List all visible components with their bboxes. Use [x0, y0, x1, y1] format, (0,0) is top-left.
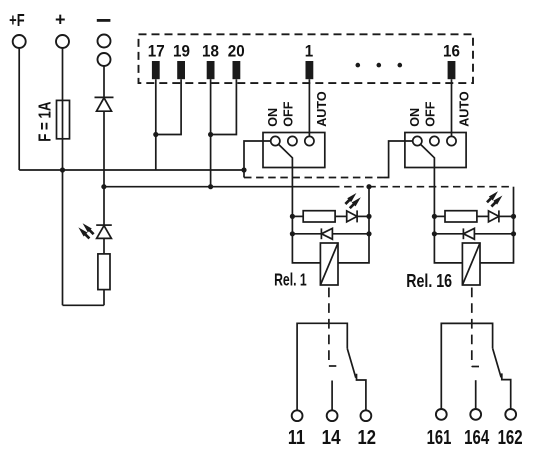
svg-text:12: 12 [358, 425, 377, 448]
rel16 wire resistor-LED [477, 215, 489, 217]
terminal 161 [436, 409, 447, 420]
wire pin17 down [155, 79, 157, 170]
svg-text:17: 17 [148, 43, 165, 61]
svg-text:20: 20 [228, 43, 245, 61]
wire +F down [18, 48, 20, 170]
rel1 dots [290, 214, 295, 219]
rel1 resistor [303, 211, 335, 222]
svg-text:+: + [55, 9, 66, 29]
wire pin19 jog [156, 79, 181, 134]
terminal - circle lower [98, 53, 111, 66]
svg-text:Rel. 16: Rel. 16 [406, 271, 452, 291]
terminal + circle [56, 35, 69, 48]
S1 lever [279, 144, 293, 167]
junction dot rel1 top [366, 184, 371, 189]
contact16 blade [493, 348, 502, 377]
svg-text:1: 1 [305, 43, 314, 61]
svg-text:11: 11 [288, 425, 305, 448]
terminal 14 [327, 410, 338, 421]
svg-text:OFF: OFF [281, 101, 295, 126]
wire pin1 down [308, 79, 310, 136]
switch S16 box [405, 133, 466, 168]
rel1 pole wire down [291, 168, 293, 217]
pin 16 [448, 61, 456, 79]
svg-text:ON: ON [408, 108, 422, 127]
junction dot + line1 [60, 167, 65, 172]
pin 18 [207, 61, 215, 79]
svg-text:162: 162 [498, 426, 523, 449]
pin 17 [152, 61, 160, 79]
rel16 freewheel diode [434, 233, 463, 235]
pin 20 [233, 61, 241, 79]
pin 1 [306, 61, 314, 79]
ON bus dashed [243, 170, 245, 178]
wire minus down [103, 111, 105, 225]
S1 ON contact [271, 136, 280, 145]
LED power indicator [96, 224, 112, 226]
svg-text:AUTO: AUTO [457, 91, 471, 127]
wire bottom jog to resistor [63, 304, 104, 306]
S16 lever [421, 144, 435, 167]
terminal 12 [361, 410, 372, 421]
wire line2 corner down right [513, 187, 515, 217]
wire pin20 jog [211, 79, 237, 134]
wire fuse down [62, 170, 64, 305]
pin 19 [177, 61, 185, 79]
svg-text:OFF: OFF [423, 101, 437, 126]
junction dot line1 right [241, 167, 246, 172]
rel1 LED arrows [345, 193, 356, 204]
rel1 left rail [292, 216, 320, 263]
ellipsis dots [356, 63, 361, 68]
junction dot 18 line2 [208, 184, 213, 189]
rel1 actuator dashed [328, 288, 330, 367]
svg-text:14: 14 [322, 425, 341, 448]
svg-text:16: 16 [443, 43, 460, 61]
rel16 coil [462, 243, 480, 285]
dashed connector box [139, 34, 474, 83]
contact16 NC [502, 373, 511, 409]
wire pin18 down [210, 79, 212, 187]
S1 ON wire left [244, 141, 271, 170]
bus line2 (minus) [104, 186, 332, 188]
rel16 pole wire down [433, 168, 435, 217]
LED arrows power [83, 223, 94, 234]
wire resistor down [103, 290, 105, 306]
terminal +F circle [13, 35, 26, 48]
svg-text:18: 18 [202, 43, 219, 61]
rel16 left rail [434, 216, 462, 263]
S1 AUTO contact [305, 136, 314, 145]
terminal - circle upper [98, 35, 111, 48]
rel1 coil [320, 243, 338, 285]
contact16 NO [475, 380, 477, 409]
terminal 162 [505, 409, 516, 420]
terminal 11 [292, 410, 303, 421]
S16 AUTO contact [447, 136, 456, 145]
contact16 bar [441, 323, 492, 409]
terminal 164 [470, 409, 481, 420]
resistor R power [98, 254, 110, 290]
diode V1 on minus line [103, 66, 105, 98]
fuse F1 [57, 100, 70, 138]
junction dot minus top [101, 184, 106, 189]
contact1 blade [347, 349, 356, 378]
junction dot 17/19 [153, 132, 158, 137]
svg-text:19: 19 [173, 43, 190, 61]
wire LED to resistor [103, 238, 105, 254]
svg-text:ON: ON [266, 108, 280, 127]
S1 OFF contact [288, 136, 297, 145]
rel16 right rail [480, 216, 514, 263]
wire pin16 down [451, 79, 453, 136]
contact1 NC [357, 374, 366, 411]
S16 OFF contact [430, 136, 439, 145]
terminal - label [97, 19, 111, 22]
bus line1 (+fused) [19, 169, 244, 171]
rel16 LED arrows [487, 191, 498, 202]
svg-text:AUTO: AUTO [315, 91, 329, 127]
rel16 actuator dashed [471, 288, 473, 367]
contact1 NO [331, 381, 333, 411]
rel1 LED [347, 211, 357, 222]
rel1 wire resistor-LED [335, 215, 347, 217]
contact1 bar [297, 323, 347, 410]
bus line2 dashed continuation [332, 186, 514, 188]
svg-text:161: 161 [427, 426, 452, 449]
rel16 LED [489, 211, 499, 222]
junction dot 18/20 [208, 132, 213, 137]
rel16 dots [432, 214, 437, 219]
svg-text:F = 1A: F = 1A [36, 102, 55, 142]
svg-text:+F: +F [9, 11, 24, 30]
rel16 resistor wire [434, 215, 445, 217]
svg-text:Rel. 1: Rel. 1 [274, 270, 307, 290]
rel1 right rail [338, 187, 369, 263]
rel1 freewheel diode [292, 233, 321, 235]
switch S1 box [263, 133, 325, 168]
wire + down to fuse [62, 48, 64, 170]
svg-text:164: 164 [464, 426, 489, 449]
S16 ON contact [413, 136, 422, 145]
rel16 resistor [445, 211, 477, 222]
rel1 resistor wire [292, 215, 303, 217]
